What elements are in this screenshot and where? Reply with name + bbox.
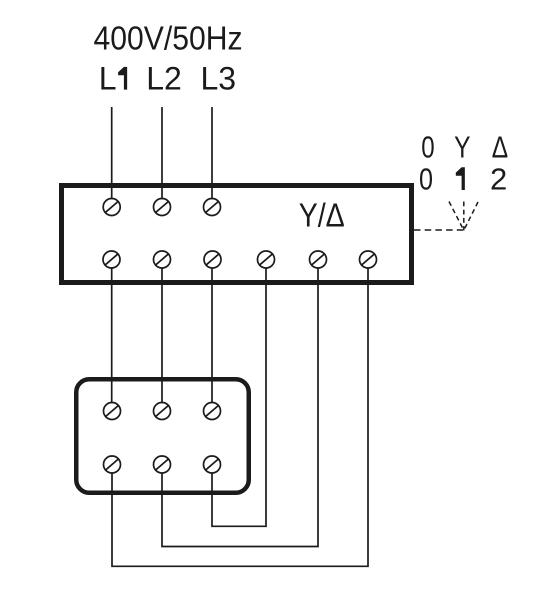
terminal motor W2 (104, 456, 121, 473)
terminal switch output 1 (103, 251, 120, 268)
svg-text:L3: L3 (201, 61, 237, 97)
wire motor U2 to switch output 5 (middle loop) (162, 268, 318, 547)
terminal switch input 2 (154, 199, 171, 216)
svg-text:Y: Y (454, 130, 470, 165)
svg-text:2: 2 (490, 162, 507, 197)
svg-text:Δ: Δ (492, 130, 508, 165)
terminal motor V1 (154, 403, 171, 420)
wire L3 to switch input (211, 107, 213, 199)
wire motor W2 to switch output 6 (outer loop) (112, 268, 368, 566)
terminal motor V2 (204, 456, 221, 473)
svg-text:0: 0 (419, 162, 433, 197)
motor terminal box (76, 379, 249, 493)
terminal motor U1 (104, 403, 121, 420)
terminal switch output 5 (310, 251, 327, 268)
terminal switch output 6 (360, 251, 377, 268)
label switch positions 0 1 2 (419, 162, 507, 197)
svg-text:L: L (99, 61, 117, 97)
terminal switch output 4 (258, 251, 275, 268)
terminal motor U2 (154, 456, 171, 473)
dashed selector pointer position 0 (449, 202, 464, 231)
svg-text:Y/Δ: Y/Δ (299, 197, 345, 234)
svg-text:400V/50Hz: 400V/50Hz (94, 20, 243, 57)
wire switch output 2 to motor V1 (161, 268, 163, 403)
terminal switch input 3 (204, 199, 221, 216)
wire switch output 1 to motor U1 (111, 268, 113, 403)
switch S1 Y/Delta body (62, 186, 412, 283)
wire switch output 3 to motor W1 (211, 268, 213, 403)
svg-text:L2: L2 (146, 61, 182, 97)
dashed selector pointer position 1 (463, 202, 465, 231)
terminal switch output 2 (154, 251, 171, 268)
wire L2 to switch input (161, 107, 163, 199)
terminal switch input 1 (103, 199, 120, 216)
dashed selector pointer position 2 (464, 202, 478, 230)
dashed link switch to selector (414, 229, 464, 231)
wire L1 to switch input (111, 107, 113, 199)
node L1 (99, 61, 127, 97)
label switch positions 0 Y Delta (421, 130, 508, 165)
wire motor W1 to switch output 4 (inner loop) (212, 268, 266, 526)
svg-text:0: 0 (421, 130, 434, 165)
terminal switch output 3 (204, 251, 221, 268)
terminal motor W1 (204, 403, 221, 420)
